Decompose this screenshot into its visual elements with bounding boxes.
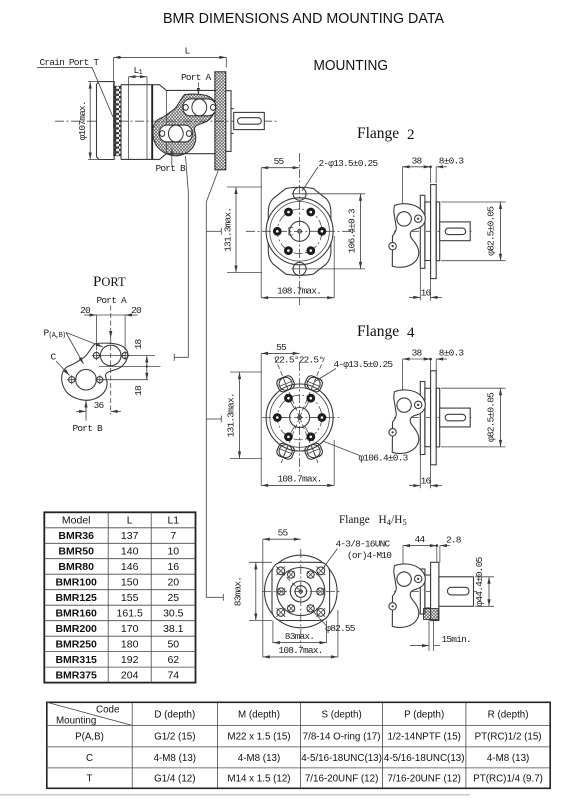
svg-text:106.4±0.3: 106.4±0.3: [347, 208, 358, 253]
svg-text:204: 204: [121, 669, 139, 681]
svg-text:4: 4: [407, 325, 415, 341]
svg-text:φ44.4±0.05: φ44.4±0.05: [474, 556, 485, 606]
svg-text:BMR50: BMR50: [58, 546, 94, 558]
flange 4 side pilot boss: [436, 388, 440, 447]
svg-text:22.5°: 22.5°: [299, 355, 324, 366]
svg-text:16: 16: [167, 561, 179, 573]
flange 2 top lug hole: [293, 187, 306, 200]
svg-text:155: 155: [121, 592, 139, 604]
svg-text:150: 150: [121, 576, 139, 588]
svg-text:74: 74: [167, 669, 179, 681]
flange 2 side rear plate: [420, 195, 425, 268]
flange 2 dim 108.7max: [333, 236, 335, 298]
svg-text:L1: L1: [167, 515, 179, 527]
svg-text:55: 55: [278, 528, 289, 539]
tick to Flange 4: [206, 418, 221, 420]
port plate hatched: [153, 94, 216, 156]
output shaft: [234, 112, 265, 129]
flange H4 side port face: [392, 564, 425, 628]
flange 4 dim 131.3max: [230, 371, 262, 373]
svg-text:BMR125: BMR125: [55, 592, 97, 604]
svg-text:φ82.55: φ82.55: [325, 623, 356, 634]
svg-text:4-φ13.5±0.25: 4-φ13.5±0.25: [334, 359, 394, 370]
svg-text:16: 16: [421, 287, 432, 298]
flange H4 corner tapped holes: [277, 567, 285, 575]
svg-text:7/16-20UNF (12): 7/16-20UNF (12): [387, 774, 461, 785]
svg-text:161.5: 161.5: [117, 607, 143, 619]
flange 2 outline: [268, 187, 331, 220]
flange 4 centerlines: [299, 362, 301, 474]
port A bolt holes: [183, 104, 188, 110]
svg-text:38: 38: [412, 155, 423, 166]
flange 2 bottom lug hole: [293, 262, 306, 275]
svg-text:16: 16: [421, 476, 432, 487]
flange 4 spokes through top lugs: [274, 357, 299, 418]
flange H4 side hatched section: [424, 609, 439, 620]
svg-text:Port B: Port B: [73, 423, 104, 434]
svg-text:170: 170: [121, 623, 139, 635]
svg-text:BMR375: BMR375: [55, 669, 97, 681]
svg-text:Model: Model: [62, 515, 91, 527]
flange 2 dim 55: [260, 168, 262, 298]
port view dim 36: [85, 400, 87, 412]
leader wire to PORT view: [174, 156, 188, 357]
model table: [44, 512, 195, 682]
svg-text:20: 20: [131, 305, 142, 316]
flange H4 pilot circle phi82.55: [277, 568, 325, 616]
port view bolt holes: [93, 352, 99, 358]
port face outline: [62, 343, 128, 400]
flange 2 side dim phi82.5: [441, 201, 506, 203]
svg-text:BMR100: BMR100: [55, 576, 97, 588]
port view dim 18 18: [96, 355, 155, 357]
body behind flange: [226, 91, 234, 152]
tick to Flange 2: [206, 230, 221, 232]
svg-text:P (depth): P (depth): [404, 710, 444, 721]
svg-text:18: 18: [133, 385, 144, 396]
flange H4 main circle: [265, 555, 338, 628]
flange H4 centerlines: [300, 549, 302, 648]
svg-text:C: C: [86, 753, 93, 764]
svg-text:4-M8 (13): 4-M8 (13): [154, 753, 196, 764]
svg-text:22.5°: 22.5°: [274, 355, 299, 366]
svg-text:φ107max.: φ107max.: [77, 101, 88, 140]
svg-text:180: 180: [121, 638, 139, 650]
motor body seam lines: [128, 85, 130, 160]
motor body outline: [121, 85, 216, 160]
port B circle: [76, 369, 97, 390]
svg-text:PORT: PORT: [93, 274, 126, 290]
svg-text:83max.: 83max.: [285, 631, 314, 642]
svg-text:108.7max.: 108.7max.: [277, 286, 321, 297]
flange H4 side dim 15min: [410, 645, 429, 647]
svg-text:BMR36: BMR36: [58, 530, 94, 542]
svg-text:7/8-14 O-ring (17): 7/8-14 O-ring (17): [303, 732, 381, 743]
svg-text:P(A,B): P(A,B): [75, 732, 104, 743]
svg-text:20: 20: [80, 305, 91, 316]
flange 4 hub: [290, 408, 310, 428]
leader wire to flange views: [206, 171, 218, 598]
flange 4 side rear plate: [420, 382, 425, 455]
svg-text:S (depth): S (depth): [321, 710, 361, 721]
flange 2 bolt circle: [277, 209, 322, 254]
flange H4 side view centerline: [394, 591, 477, 593]
svg-text:BMR200: BMR200: [55, 623, 97, 635]
flange 4 side port face: [392, 390, 425, 454]
flange H4 bolt holes: [317, 588, 324, 595]
svg-text:4-M8 (13): 4-M8 (13): [238, 753, 280, 764]
svg-text:G1/4 (12): G1/4 (12): [154, 774, 195, 785]
flange 2 side port face: [392, 204, 425, 268]
svg-text:108.7max.: 108.7max.: [278, 645, 322, 656]
flange H4 diagonal spoke: [277, 567, 301, 592]
svg-text:H4/H5: H4/H5: [379, 514, 408, 527]
svg-text:4-M8 (13): 4-M8 (13): [487, 753, 529, 764]
port A hole: [192, 99, 207, 116]
svg-text:55: 55: [274, 156, 285, 167]
svg-text:BMR315: BMR315: [55, 654, 97, 666]
svg-text:20: 20: [167, 576, 179, 588]
flange 2 front view centerlines: [299, 153, 301, 305]
flange H4 hub: [290, 581, 311, 602]
svg-text:Flange: Flange: [357, 323, 399, 340]
svg-text:BMR DIMENSIONS AND MOUNTING D: BMR DIMENSIONS AND MOUNTING DATA: [163, 11, 444, 27]
svg-text:38: 38: [412, 348, 423, 359]
svg-text:131.3max.: 131.3max.: [226, 393, 237, 437]
flange 4 side dim 38: [402, 359, 404, 390]
svg-text:55: 55: [276, 342, 287, 353]
flange 4 dim 55: [260, 353, 262, 485]
svg-text:L: L: [127, 515, 133, 527]
flange 4 bolt circle: [277, 395, 322, 440]
svg-text:137: 137: [121, 530, 139, 542]
shaft key slot: [238, 118, 262, 125]
svg-text:(or)4-M10: (or)4-M10: [347, 550, 392, 561]
svg-text:44: 44: [415, 534, 426, 545]
flange H4 side dim 2.8: [439, 546, 441, 563]
svg-text:R (depth): R (depth): [488, 710, 529, 721]
svg-text:Flange: Flange: [357, 125, 399, 142]
svg-text:MOUNTING: MOUNTING: [314, 57, 389, 74]
svg-text:2-φ13.5±0.25: 2-φ13.5±0.25: [319, 158, 379, 169]
svg-text:Mounting: Mounting: [56, 716, 96, 727]
flange 2 side dim 16: [419, 268, 421, 300]
svg-text:M22 x 1.5 (15): M22 x 1.5 (15): [227, 732, 290, 743]
motor serrated seal ring: [114, 86, 121, 156]
svg-text:T: T: [87, 774, 93, 785]
flange 4 side dim 8: [435, 359, 437, 375]
flange 2 side pilot boss: [436, 202, 440, 261]
flange 4 side dim 16: [419, 455, 421, 489]
mounting table header diagonal: [47, 702, 132, 725]
svg-text:36: 36: [94, 400, 105, 411]
svg-text:4-5/16-18UNC(13): 4-5/16-18UNC(13): [301, 753, 382, 764]
svg-text:140: 140: [121, 546, 139, 558]
svg-text:BMR160: BMR160: [55, 607, 97, 619]
dimension L: [113, 57, 115, 128]
flange 2 side view centerline: [394, 230, 473, 232]
svg-text:8±0.3: 8±0.3: [439, 348, 465, 359]
flange H4 dim 83max bottom: [272, 621, 274, 644]
svg-text:φ82.5±0.05: φ82.5±0.05: [486, 206, 497, 256]
flange H4 dim 108.7max: [337, 610, 339, 657]
svg-text:Crain Port T: Crain Port T: [40, 57, 100, 68]
svg-text:BMR80: BMR80: [58, 561, 94, 573]
flange 2 hub: [290, 221, 310, 241]
svg-text:30.5: 30.5: [163, 607, 184, 619]
svg-text:PT(RC)1/4 (9.7): PT(RC)1/4 (9.7): [473, 774, 543, 785]
motor side view centerline: [55, 120, 279, 122]
svg-text:8±0.3: 8±0.3: [439, 155, 465, 166]
svg-text:PT(RC)1/2 (15): PT(RC)1/2 (15): [475, 732, 542, 743]
mounting data table: [47, 702, 550, 788]
flange H4 side flange plate: [431, 562, 439, 620]
flange 2 side flange plate: [431, 185, 437, 279]
svg-text:2.8: 2.8: [446, 534, 462, 545]
flange 4 side shaft: [440, 408, 471, 427]
port B bolt holes: [160, 131, 165, 137]
flange H4 side dim phi44.4: [475, 576, 494, 578]
port B hole: [168, 125, 183, 142]
svg-text:D (depth): D (depth): [154, 710, 195, 721]
flange 4 dim 108.7max: [333, 440, 335, 485]
svg-text:25: 25: [167, 592, 179, 604]
flange 4 main circle: [266, 384, 333, 451]
flange H4 dim 55: [262, 539, 264, 657]
flange H4 side shaft: [439, 577, 474, 607]
svg-text:10: 10: [167, 546, 179, 558]
svg-text:2: 2: [407, 127, 415, 143]
svg-text:G1/2 (15): G1/2 (15): [154, 732, 195, 743]
motor end cap: [97, 82, 115, 160]
svg-text:7/16-20UNF (12): 7/16-20UNF (12): [305, 774, 379, 785]
flange 4 side view centerline: [394, 417, 473, 419]
port A leader: [110, 306, 112, 339]
svg-text:83max.: 83max.: [233, 577, 244, 606]
svg-text:M (depth): M (depth): [238, 710, 280, 721]
flange 2 bolt holes: [318, 227, 327, 236]
flange 4 lug holes: [279, 377, 292, 390]
dimension phi107max: [88, 81, 103, 83]
flange 2 main circle: [266, 198, 333, 265]
flange H4 dim 83max left: [249, 561, 272, 563]
flange 4 lugs: [275, 374, 295, 393]
flange 2 side shaft: [440, 222, 471, 241]
svg-text:φ82.5±0.05: φ82.5±0.05: [486, 392, 497, 442]
svg-text:Code: Code: [96, 705, 120, 716]
svg-text:Flange: Flange: [339, 514, 370, 526]
svg-text:15min.: 15min.: [442, 634, 471, 645]
port B face: [159, 125, 192, 142]
port A circle: [100, 345, 121, 366]
flange 2 side key: [445, 228, 465, 235]
flange 2 dim 131.3max: [227, 186, 262, 188]
flange H4 side thread lines: [428, 619, 430, 651]
svg-text:7: 7: [170, 530, 176, 542]
svg-text:M14 x 1.5 (12): M14 x 1.5 (12): [227, 774, 290, 785]
svg-text:BMR250: BMR250: [55, 638, 97, 650]
dimension L1: [128, 77, 130, 85]
port A face: [183, 99, 216, 116]
flange H4 side key: [448, 587, 470, 595]
svg-text:Port A: Port A: [181, 72, 212, 83]
svg-text:18: 18: [133, 339, 144, 350]
flange 2 side dim 38: [402, 167, 404, 204]
svg-text:Port A: Port A: [97, 295, 128, 306]
svg-text:62: 62: [167, 654, 179, 666]
svg-text:108.7max.: 108.7max.: [277, 473, 321, 484]
flange 2 side dim 8: [435, 167, 437, 183]
mounting flange hatched: [215, 72, 226, 170]
svg-text:50: 50: [167, 638, 179, 650]
flange 4 side key: [445, 414, 465, 421]
svg-text:192: 192: [121, 654, 139, 666]
port view dim 20 20: [95, 315, 97, 350]
flange 2 dim 106.4: [303, 193, 365, 195]
flange H4 square plate: [272, 562, 330, 620]
flange 4 side dim phi82.5: [441, 387, 506, 389]
flange 4 side flange plate: [431, 371, 437, 465]
flange H4 side rear plate: [420, 569, 425, 614]
svg-text:4-5/16-18UNC(13): 4-5/16-18UNC(13): [384, 753, 465, 764]
svg-text:1/2-14NPTF (15): 1/2-14NPTF (15): [387, 732, 461, 743]
flange 4 bolt holes: [310, 417, 327, 419]
scan artifact line: [0, 794, 470, 796]
svg-text:131.3max.: 131.3max.: [223, 208, 234, 252]
tick to Flange H4/H5: [206, 596, 223, 598]
svg-text:4-3/8-16UNC: 4-3/8-16UNC: [336, 539, 391, 550]
svg-text:38.1: 38.1: [163, 623, 184, 635]
svg-text:146: 146: [121, 561, 139, 573]
svg-text:Port B: Port B: [156, 163, 187, 174]
flange H4 side dim 44: [402, 546, 404, 564]
